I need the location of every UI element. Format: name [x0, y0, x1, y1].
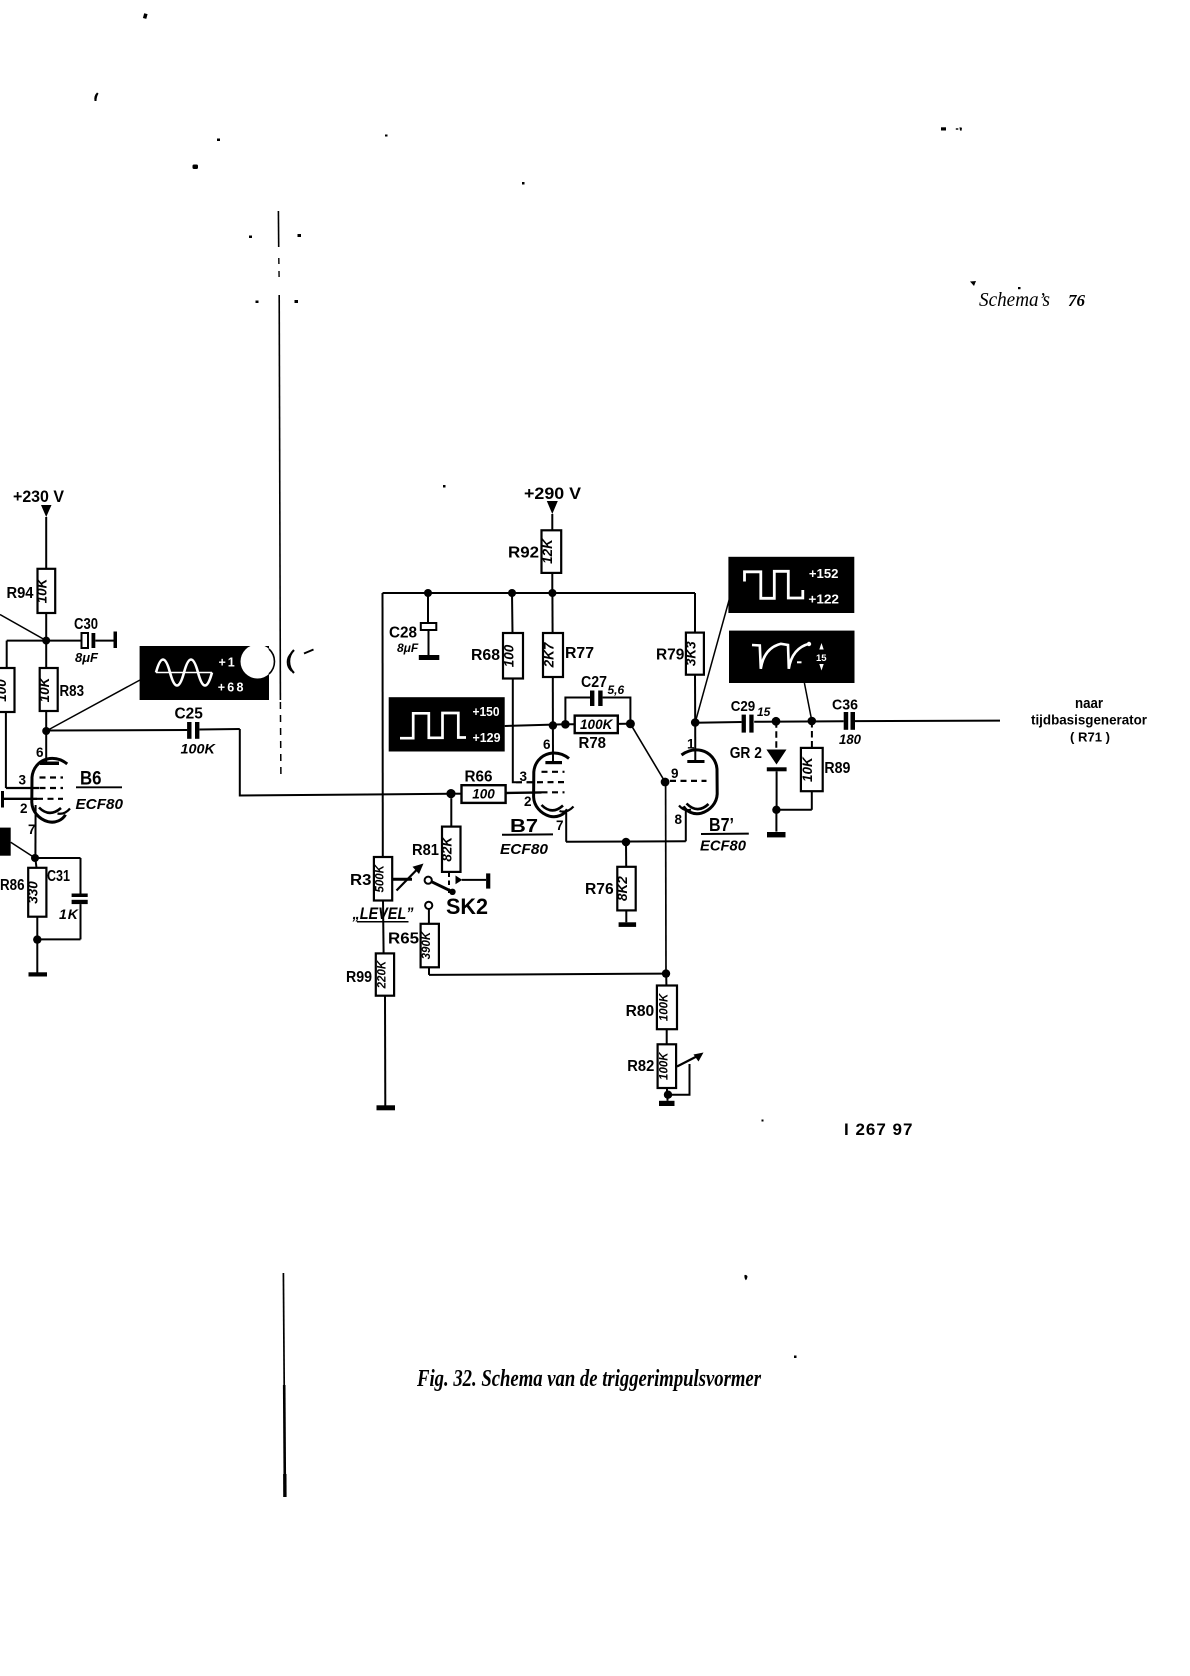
- svg-text:500K: 500K: [375, 864, 387, 892]
- svg-text:+122: +122: [808, 593, 839, 607]
- svg-text:8μF: 8μF: [75, 650, 99, 665]
- svg-text:R3: R3: [350, 872, 372, 889]
- svg-text:2: 2: [524, 794, 532, 809]
- svg-text:„LEVEL”: „LEVEL”: [352, 904, 414, 923]
- svg-text:C29: C29: [731, 698, 756, 715]
- svg-text:C30: C30: [74, 616, 98, 633]
- svg-text:R65: R65: [388, 931, 419, 948]
- svg-text:B7’: B7’: [709, 815, 734, 835]
- svg-text:ECF80: ECF80: [76, 796, 124, 813]
- svg-text:R86: R86: [0, 877, 25, 894]
- svg-text:8μF: 8μF: [397, 641, 419, 655]
- svg-text:3: 3: [19, 773, 27, 788]
- svg-text:R81: R81: [412, 842, 439, 859]
- svg-text:R66: R66: [465, 769, 493, 786]
- svg-text:2: 2: [20, 801, 28, 816]
- svg-text:390K: 390K: [421, 931, 433, 959]
- svg-text:R80: R80: [626, 1003, 655, 1020]
- svg-text:R68: R68: [471, 647, 500, 664]
- svg-text:+150: +150: [473, 705, 500, 719]
- svg-text:+68: +68: [218, 681, 246, 695]
- svg-text:82K: 82K: [440, 836, 455, 862]
- svg-text:Fig. 32. Schema van de trigger: Fig. 32. Schema van de triggerimpulsvorm…: [416, 1366, 761, 1392]
- svg-text:100K: 100K: [658, 993, 670, 1021]
- svg-text:+129: +129: [473, 731, 501, 745]
- svg-text:( R71 ): ( R71 ): [1070, 730, 1110, 745]
- svg-text:1: 1: [687, 737, 695, 752]
- svg-text:C36: C36: [832, 697, 858, 714]
- svg-text:10K: 10K: [800, 756, 815, 782]
- svg-text:7: 7: [28, 822, 36, 837]
- svg-text:R77: R77: [565, 645, 594, 662]
- svg-text:+152: +152: [809, 567, 839, 581]
- svg-text:8K2: 8K2: [615, 876, 630, 901]
- svg-text:100K: 100K: [181, 741, 216, 757]
- svg-text:15: 15: [816, 653, 827, 664]
- svg-text:100K: 100K: [580, 717, 614, 732]
- svg-text:15: 15: [757, 705, 771, 719]
- svg-text:100K: 100K: [658, 1052, 670, 1080]
- svg-text:R99: R99: [346, 969, 372, 986]
- svg-text:GR 2: GR 2: [730, 745, 762, 762]
- svg-text:R83: R83: [60, 683, 85, 700]
- svg-text:1K: 1K: [59, 906, 79, 922]
- svg-text:R78: R78: [579, 735, 607, 752]
- svg-text:+1: +1: [219, 656, 237, 670]
- svg-text:180: 180: [839, 732, 861, 747]
- svg-text:C28: C28: [389, 625, 417, 642]
- svg-text:SK2: SK2: [446, 894, 488, 919]
- svg-text:6: 6: [36, 745, 44, 760]
- svg-text:R89: R89: [824, 760, 850, 777]
- svg-text:3K3: 3K3: [683, 641, 698, 666]
- svg-text:+230 V: +230 V: [13, 487, 65, 506]
- svg-text:R92: R92: [508, 545, 539, 562]
- svg-text:9: 9: [671, 766, 679, 781]
- svg-text:R82: R82: [627, 1058, 654, 1075]
- svg-text:C25: C25: [175, 706, 203, 723]
- svg-text:76: 76: [1068, 291, 1086, 310]
- svg-text:8: 8: [675, 812, 683, 827]
- svg-text:330: 330: [26, 881, 41, 904]
- svg-text:100: 100: [502, 644, 517, 667]
- svg-text:R76: R76: [585, 881, 614, 898]
- svg-text:R94: R94: [7, 585, 34, 602]
- svg-text:ECF80: ECF80: [500, 841, 549, 858]
- svg-text:220K: 220K: [376, 960, 388, 989]
- svg-text:C27: C27: [581, 674, 607, 691]
- svg-text:5,6: 5,6: [608, 683, 625, 697]
- svg-text:B7: B7: [510, 816, 538, 836]
- svg-text:+290 V: +290 V: [524, 484, 582, 503]
- svg-text:2K7: 2K7: [542, 641, 557, 668]
- svg-text:10K: 10K: [37, 676, 52, 702]
- svg-text:tijdbasisgenerator: tijdbasisgenerator: [1031, 713, 1148, 728]
- svg-text:naar: naar: [1075, 695, 1103, 712]
- svg-text:100: 100: [472, 786, 495, 801]
- svg-text:ECF80: ECF80: [700, 838, 747, 855]
- svg-text:3: 3: [520, 769, 528, 784]
- svg-text:R79: R79: [656, 647, 684, 664]
- svg-text:10K: 10K: [35, 577, 50, 603]
- svg-text:12K: 12K: [540, 538, 555, 564]
- svg-text:C31: C31: [47, 868, 70, 885]
- svg-text:Schema’s: Schema’s: [979, 289, 1050, 311]
- svg-text:B6: B6: [80, 769, 102, 790]
- svg-text:7: 7: [556, 818, 564, 833]
- svg-text:I 267 97: I 267 97: [844, 1120, 913, 1139]
- svg-text:6: 6: [543, 737, 551, 752]
- svg-text:100: 100: [0, 679, 9, 702]
